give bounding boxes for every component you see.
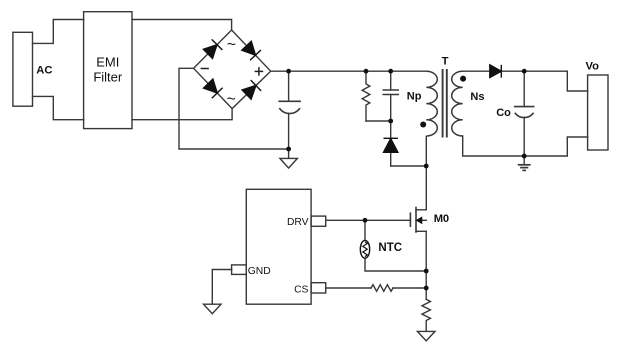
wire AC bottom to EMI (33, 96, 84, 119)
wire secondary top to output diode (463, 70, 490, 72)
svg-text:Vo: Vo (586, 60, 600, 72)
wire MOSFET source down (425, 231, 427, 299)
primary polarity dot (420, 122, 426, 128)
svg-text:T: T (442, 56, 449, 68)
label + (201, 67, 264, 76)
output diode (490, 65, 502, 78)
snubber capacitor (390, 71, 392, 90)
CS resistor (371, 285, 393, 292)
ground (bulk cap) (280, 158, 298, 168)
wire CS resistor to junction (393, 287, 426, 289)
wire snubber diode to drain (391, 165, 427, 167)
snubber diode lead (390, 121, 392, 138)
wire CS to resistor (326, 287, 371, 289)
wire DRV to gate (326, 219, 411, 221)
bulk capacitor lead bottom (288, 113, 290, 149)
wire AC top to EMI (33, 20, 84, 44)
sense resistor (422, 299, 430, 331)
svg-text:DRV: DRV (287, 217, 309, 228)
ground (GND pin) (204, 304, 222, 314)
bridge diode lower-right (242, 86, 256, 100)
earth ground stub (523, 156, 525, 165)
bulk capacitor lead top (288, 71, 290, 101)
bridge diode upper-right (242, 41, 256, 55)
wire NTC branch top (364, 220, 366, 240)
wire positive rail (271, 70, 427, 72)
pin GND (232, 265, 247, 275)
wire snubber bottom link (366, 120, 391, 122)
svg-text:Co: Co (496, 107, 511, 119)
earth ground (output) (518, 165, 531, 171)
transformer T secondary Ns (452, 71, 463, 136)
svg-text:EMI: EMI (96, 55, 119, 70)
wire NTC bottom to source (365, 258, 426, 271)
wire output diode to Vo (501, 71, 587, 91)
wire GND pin to ground (212, 270, 231, 305)
svg-text:CS: CS (294, 284, 308, 295)
secondary polarity dot (460, 76, 466, 82)
wire ground stub (288, 149, 290, 158)
wire bridge minus to ground rail (179, 68, 289, 149)
svg-text:~: ~ (227, 91, 236, 108)
NTC thermistor (360, 240, 369, 258)
label - (201, 68, 209, 70)
EMI filter block (84, 12, 132, 129)
svg-text:Np: Np (407, 91, 422, 103)
svg-text:~: ~ (227, 37, 236, 54)
AC source connector (13, 32, 33, 106)
pin CS (311, 283, 326, 293)
snubber resistor (362, 71, 370, 121)
MOSFET M0 (410, 208, 426, 233)
transformer core (443, 69, 447, 138)
bridge diode upper-left (203, 45, 217, 59)
output connector Vo (588, 75, 608, 150)
output capacitor Co (523, 71, 525, 106)
bridge diode lower-left (204, 79, 218, 93)
wire EMI to bridge top (132, 20, 232, 31)
svg-text:Filter: Filter (93, 70, 123, 85)
pin DRV (311, 216, 326, 226)
wire primary bottom to drain junction (425, 136, 427, 210)
svg-text:Ns: Ns (470, 91, 484, 103)
bridge rectifier diamond (194, 30, 271, 109)
transformer T primary Np (426, 71, 437, 136)
junction node dots (286, 69, 526, 291)
svg-text:M0: M0 (434, 213, 449, 225)
bulk capacitor plates (279, 100, 300, 102)
svg-text:AC: AC (36, 65, 52, 77)
wire EMI to bridge bottom (132, 109, 232, 120)
svg-text:GND: GND (248, 266, 271, 277)
ground (sense resistor) (417, 331, 435, 341)
wire secondary bottom rail (463, 136, 588, 156)
snubber diode (384, 138, 399, 152)
controller IC (246, 189, 311, 304)
svg-text:NTC: NTC (378, 242, 402, 254)
